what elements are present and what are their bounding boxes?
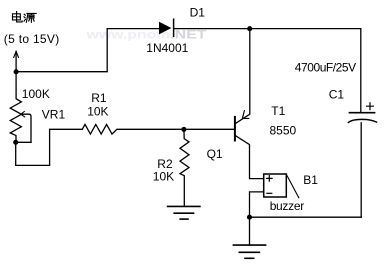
svg-text:www.pnom.NET: www.pnom.NET bbox=[85, 27, 207, 41]
svg-text:100K: 100K bbox=[22, 87, 50, 101]
svg-text:8550: 8550 bbox=[270, 124, 297, 138]
svg-text:(5 to 15V): (5 to 15V) bbox=[4, 32, 60, 46]
svg-text:4700uF/25V: 4700uF/25V bbox=[295, 60, 356, 74]
svg-text:B1: B1 bbox=[303, 173, 318, 187]
svg-text:10K: 10K bbox=[87, 105, 108, 119]
svg-text:R1: R1 bbox=[91, 91, 107, 105]
svg-text:1N4001: 1N4001 bbox=[146, 41, 188, 55]
svg-text:VR1: VR1 bbox=[42, 107, 66, 121]
svg-text:Q1: Q1 bbox=[207, 147, 223, 161]
svg-text:D1: D1 bbox=[190, 6, 206, 20]
svg-text:10K: 10K bbox=[153, 170, 174, 184]
svg-text:buzzer: buzzer bbox=[270, 199, 305, 213]
svg-text:T1: T1 bbox=[271, 104, 285, 118]
svg-text:C1: C1 bbox=[329, 87, 345, 101]
